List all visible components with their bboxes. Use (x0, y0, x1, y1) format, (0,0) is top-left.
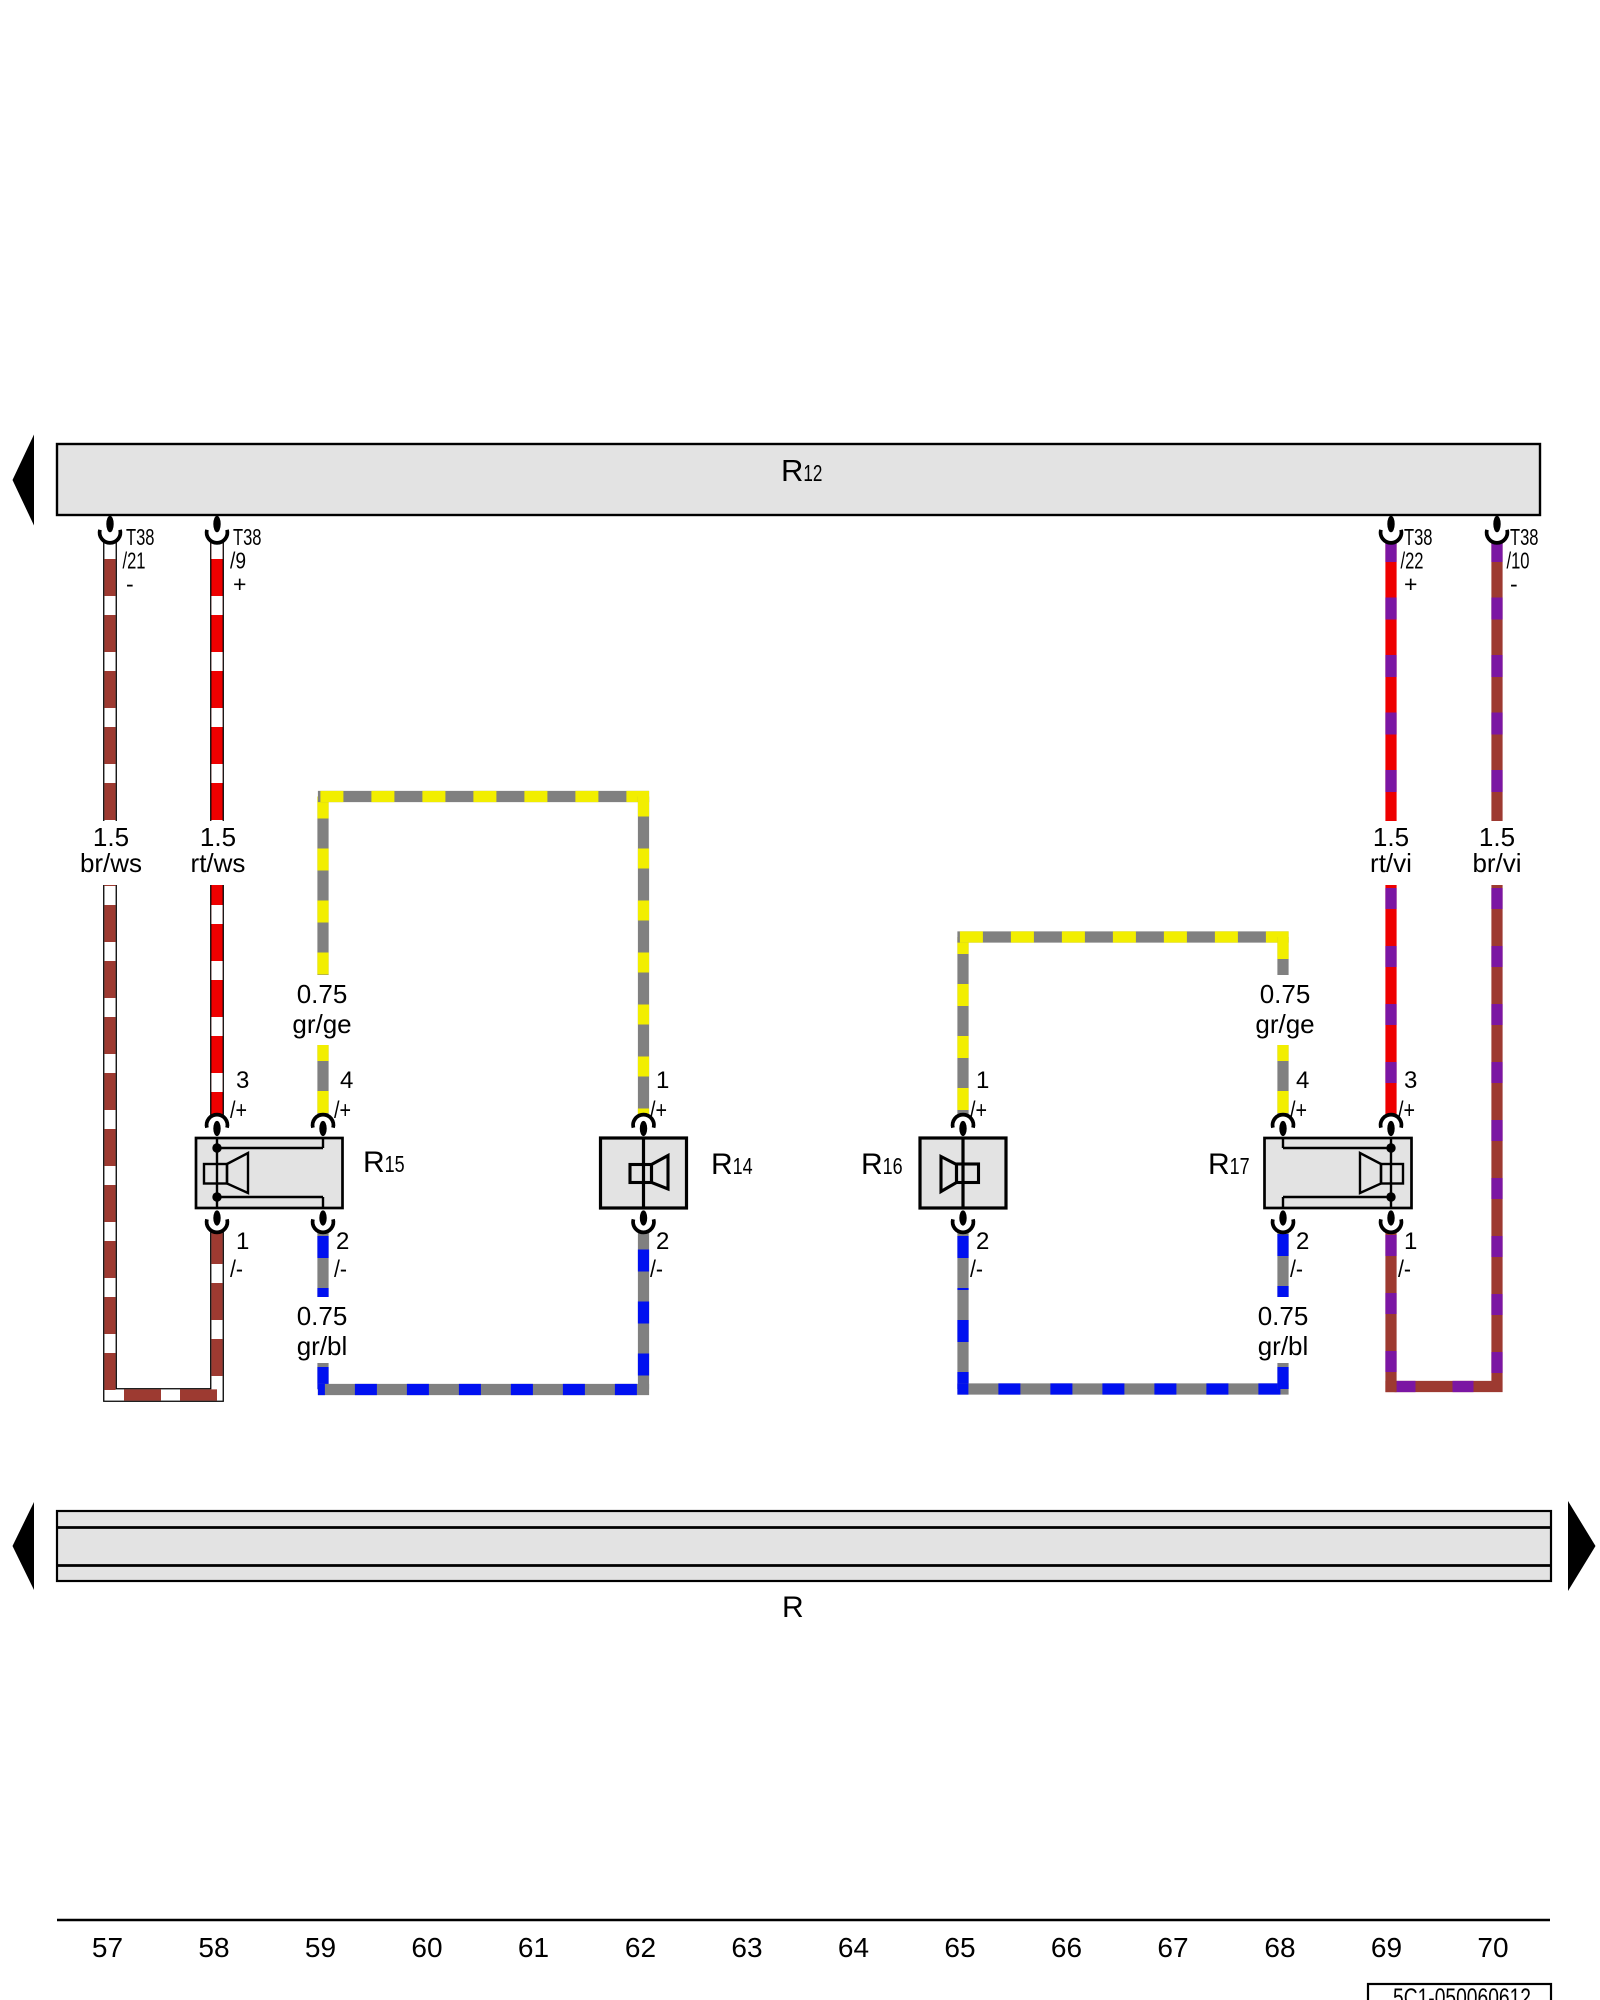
svg-text:58: 58 (198, 1932, 229, 1963)
pin label R15 pin 1 /- (230, 1228, 249, 1283)
svg-text:0.75: 0.75 (1260, 979, 1311, 1009)
wire gr/bl left lower vertical (317, 1363, 328, 1390)
pin label R17 pin 4 /+ (1290, 1067, 1309, 1124)
direction arrow left of R12 bar (13, 435, 35, 526)
svg-text:br/ws: br/ws (80, 848, 142, 878)
pin label R17 pin 2 /- (1290, 1228, 1309, 1283)
svg-text:/-: /- (970, 1256, 983, 1283)
svg-text:1: 1 (236, 1228, 249, 1255)
svg-text:+: + (233, 571, 246, 597)
svg-text:1: 1 (976, 1067, 989, 1094)
component R16 speaker box (920, 1138, 1006, 1208)
svg-text:1: 1 (656, 1067, 669, 1094)
pin label R16 pin 2 /- (970, 1228, 989, 1283)
pin label R16 pin 1 /+ (970, 1067, 989, 1124)
wire br/vi upper segment from T38/10 (1491, 542, 1502, 821)
wire gr/bl stub below R15 pin 2 (317, 1231, 328, 1297)
wire label 1.5 br/vi (1472, 822, 1521, 878)
svg-text:T38: T38 (126, 524, 155, 550)
wire gr/bl stub below R17 pin 2 (1277, 1231, 1288, 1297)
terminal label T38/9 + (230, 524, 262, 597)
connector pin T38/10 at R12 (1487, 516, 1508, 543)
svg-text:/-: /- (334, 1256, 347, 1283)
connector R17 pin 3 (1381, 1115, 1402, 1136)
wire br/vi lower U segment to R17 pin 1 (1385, 885, 1497, 1392)
wire label 0.75 gr/bl right (1258, 1301, 1309, 1361)
wire gr/ge left top horizontal run (318, 791, 649, 802)
svg-text:1: 1 (1404, 1228, 1417, 1255)
wire gr/ge stub above R17 pin 4 (1277, 1045, 1288, 1115)
direction arrow right of R rail (1568, 1501, 1596, 1591)
wire rt/ws lower segment to R15 pin 3 (210, 885, 224, 1115)
pin label R15 pin 3 /+ (230, 1067, 249, 1124)
terminal label T38/21 - (123, 524, 155, 597)
wire gr/ge R15 pin 4 vertical run (317, 797, 328, 976)
svg-text:68: 68 (1264, 1932, 1295, 1963)
svg-text:59: 59 (305, 1932, 336, 1963)
svg-text:0.75: 0.75 (297, 1301, 348, 1331)
R15 junction dots (212, 1143, 221, 1152)
svg-text:66: 66 (1051, 1932, 1082, 1963)
svg-text:R: R (782, 1591, 804, 1624)
wire gr/bl stub below R16 pin 2 (957, 1231, 968, 1290)
svg-text:65: 65 (944, 1932, 975, 1963)
svg-text:2: 2 (336, 1228, 349, 1255)
svg-text:2: 2 (976, 1228, 989, 1255)
component R12 radio unit bar (57, 444, 1540, 515)
svg-text:5C1-050060612: 5C1-050060612 (1393, 1984, 1531, 2000)
svg-text:gr/ge: gr/ge (1255, 1009, 1314, 1039)
svg-text:/-: /- (1398, 1256, 1411, 1283)
svg-text:2: 2 (656, 1228, 669, 1255)
svg-text:T38: T38 (1510, 524, 1539, 550)
coordinate numbers 57-70 (92, 1932, 1509, 1963)
svg-text:67: 67 (1157, 1932, 1188, 1963)
direction arrow left of R rail (13, 1502, 35, 1590)
connector R14 pin 1 (633, 1115, 654, 1136)
svg-text:R15: R15 (363, 1146, 405, 1179)
connector R15 pin 2 (313, 1210, 334, 1232)
wire rt/ws upper segment from T38/9 (210, 542, 224, 821)
svg-text:4: 4 (1296, 1067, 1309, 1094)
component R15 speaker box (196, 1138, 343, 1208)
wire br/ws lower U segment to R15 pin 1 (110, 885, 217, 1395)
svg-text:/+: /+ (650, 1097, 667, 1124)
pin label R15 pin 4 /+ (334, 1067, 353, 1124)
svg-text:/9: /9 (230, 548, 246, 574)
svg-text:R14: R14 (711, 1148, 753, 1181)
svg-text:/+: /+ (334, 1097, 351, 1124)
R16 speaker icon (941, 1157, 979, 1192)
terminal label T38/10 - (1507, 524, 1539, 597)
svg-text:3: 3 (236, 1067, 249, 1094)
connector pin T38/9 at R12 (207, 516, 228, 543)
wire gr/ge R16 pin 1 vertical run (957, 937, 968, 1115)
connector R15 pin 1 (207, 1210, 228, 1232)
wire gr/bl up to R17 pin 2 (1277, 1363, 1288, 1389)
R14 speaker icon (630, 1156, 668, 1190)
connector R14 pin 2 (633, 1210, 654, 1232)
svg-text:69: 69 (1371, 1932, 1402, 1963)
svg-text:0.75: 0.75 (1258, 1301, 1309, 1331)
wire label 1.5 rt/ws (191, 822, 246, 878)
svg-text:3: 3 (1404, 1067, 1417, 1094)
svg-text:gr/bl: gr/bl (297, 1331, 348, 1361)
svg-text:/-: /- (1290, 1256, 1303, 1283)
wire gr/bl right lower vertical (957, 1290, 968, 1389)
R15 internal wiring (217, 1139, 323, 1207)
svg-text:63: 63 (731, 1932, 762, 1963)
ground rail inner line upper (57, 1526, 1551, 1529)
svg-text:/+: /+ (1290, 1097, 1307, 1124)
svg-text:+: + (1404, 571, 1417, 597)
R16 internal wiring (961, 1139, 964, 1207)
svg-text:gr/ge: gr/ge (292, 1009, 351, 1039)
wire label 1.5 br/ws (80, 822, 142, 878)
connector pin T38/22 at R12 (1381, 516, 1402, 543)
svg-text:gr/bl: gr/bl (1258, 1331, 1309, 1361)
svg-text:57: 57 (92, 1932, 123, 1963)
connector R16 pin 1 (953, 1115, 974, 1136)
svg-text:0.75: 0.75 (297, 979, 348, 1009)
svg-text:-: - (1510, 571, 1518, 597)
ground rail bar R (57, 1511, 1551, 1581)
svg-text:70: 70 (1477, 1932, 1508, 1963)
svg-text:br/vi: br/vi (1472, 848, 1521, 878)
R17 internal wiring (1283, 1139, 1391, 1207)
wire rt/vi upper segment from T38/22 (1385, 542, 1396, 821)
svg-text:T38: T38 (233, 524, 262, 550)
R15 speaker icon (204, 1153, 248, 1193)
wire br/ws upper segment from T38/21 (103, 542, 117, 821)
wire gr/bl up to R14 pin 2 (638, 1231, 649, 1390)
svg-text:R16: R16 (861, 1148, 903, 1181)
wire label 0.75 gr/ge right (1255, 979, 1314, 1039)
svg-text:61: 61 (518, 1932, 549, 1963)
pin label R17 pin 3 /+ (1398, 1067, 1417, 1124)
R14 internal wiring (642, 1139, 645, 1207)
svg-text:rt/ws: rt/ws (191, 848, 246, 878)
pin label R17 pin 1 /- (1398, 1228, 1417, 1283)
svg-text:/22: /22 (1401, 548, 1424, 574)
wire gr/bl right bottom horizontal run (957, 1383, 1288, 1394)
wire label 0.75 gr/ge left (292, 979, 351, 1039)
wire label 0.75 gr/bl left (297, 1301, 348, 1361)
connector R16 pin 2 (953, 1210, 974, 1232)
pin label R15 pin 2 /- (334, 1228, 349, 1283)
connector R15 pin 3 (207, 1115, 228, 1136)
pin label R14 pin 2 /- (650, 1228, 669, 1283)
component R17 speaker box (1265, 1138, 1412, 1208)
terminal label T38/22 + (1401, 524, 1433, 597)
svg-text:R17: R17 (1208, 1148, 1250, 1181)
svg-text:rt/vi: rt/vi (1370, 848, 1412, 878)
svg-text:64: 64 (838, 1932, 869, 1963)
svg-text:T38: T38 (1404, 524, 1433, 550)
ground rail inner line lower (57, 1564, 1551, 1567)
component R14 speaker box (601, 1138, 687, 1208)
pin label R14 pin 1 /+ (650, 1067, 669, 1124)
svg-text:62: 62 (625, 1932, 656, 1963)
svg-text:/21: /21 (123, 548, 146, 574)
svg-text:/-: /- (650, 1256, 663, 1283)
R17 junction dots (1386, 1143, 1395, 1152)
wire rt/vi lower segment to R17 pin 3 (1385, 885, 1396, 1115)
svg-text:4: 4 (340, 1067, 353, 1094)
svg-text:/+: /+ (1398, 1097, 1415, 1124)
svg-text:/10: /10 (1507, 548, 1530, 574)
wire gr/ge right top horizontal run (957, 931, 1288, 942)
svg-text:/+: /+ (970, 1097, 987, 1124)
wire gr/ge down to R14 pin 1 (638, 797, 649, 1116)
connector R17 pin 4 (1273, 1115, 1294, 1136)
connector R17 pin 2 (1273, 1210, 1294, 1232)
svg-text:/-: /- (230, 1256, 243, 1283)
connector R15 pin 4 (313, 1115, 334, 1136)
coordinate scale line (57, 1919, 1550, 1922)
connector pin T38/21 at R12 (100, 516, 121, 543)
svg-text:-: - (126, 571, 134, 597)
svg-text:2: 2 (1296, 1228, 1309, 1255)
drawing number box (1368, 1984, 1551, 2000)
R17 speaker icon (1360, 1153, 1403, 1193)
wire gr/bl left bottom horizontal run (318, 1384, 649, 1395)
wire gr/ge stub above R15 pin 4 (317, 1045, 328, 1115)
svg-text:/+: /+ (230, 1097, 247, 1124)
connector R17 pin 1 (1381, 1210, 1402, 1232)
svg-text:60: 60 (411, 1932, 442, 1963)
wire gr/ge right upper vertical (1277, 937, 1288, 975)
wire label 1.5 rt/vi (1370, 822, 1412, 878)
